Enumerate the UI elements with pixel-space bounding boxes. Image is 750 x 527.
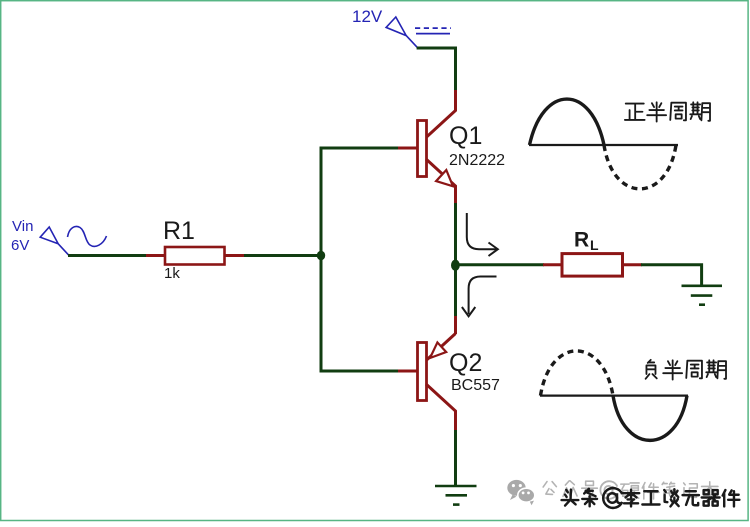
resistor RL lead right	[623, 263, 643, 266]
resistor R1 lead left	[146, 254, 165, 257]
watermark black text toutiao ligongtanyuanqijian	[562, 490, 579, 506]
waveform positive half axis	[529, 144, 678, 146]
input probe Vin	[40, 227, 68, 255]
svg-text:Vin: Vin	[12, 218, 33, 235]
waveform negative half axis	[540, 395, 688, 397]
watermark wechat icon	[507, 480, 535, 505]
transistor Q2 collector lead	[426, 384, 456, 432]
wire to Q2 base	[320, 370, 398, 373]
wire node B to RL	[456, 263, 545, 266]
svg-text:Q1: Q1	[449, 122, 482, 150]
wire Q2 collector to ground	[454, 430, 457, 486]
wire left vertical base rail	[320, 147, 323, 373]
wire Q1 emitter to node B	[454, 203, 457, 317]
node A junction dot	[317, 251, 325, 261]
svg-text:12V: 12V	[352, 7, 383, 26]
transistor Q1 emitter lead	[426, 159, 456, 204]
wire 12V corner	[417, 48, 456, 91]
current arrow upper	[467, 213, 496, 249]
DC symbol solid	[416, 33, 450, 35]
svg-text:Q2: Q2	[449, 349, 482, 377]
resistor R1 lead right	[225, 254, 246, 257]
transistor Q1 body bar	[418, 121, 427, 177]
transistor Q1 collector lead	[426, 90, 456, 138]
wire node B down	[454, 316, 457, 334]
waveform positive half solid hump	[530, 99, 605, 145]
label zhengbanzhouqi	[625, 104, 645, 120]
svg-text:BC557: BC557	[451, 377, 500, 394]
wire RL to right ground	[641, 265, 702, 286]
svg-text:R: R	[574, 229, 589, 252]
resistor RL body	[562, 254, 623, 277]
DC symbol dashed	[415, 27, 451, 29]
Q2 base lead	[398, 370, 417, 373]
transistor Q2 emitter arrow	[430, 342, 446, 358]
Q1 base lead	[398, 147, 417, 150]
svg-text:2N2222: 2N2222	[449, 152, 505, 169]
power probe 12V	[386, 17, 417, 48]
waveform negative half dashed hump	[541, 351, 614, 396]
label fubanzhouqi	[646, 360, 657, 379]
node B junction dot	[451, 260, 460, 271]
transistor Q2 body bar	[418, 343, 427, 401]
wire input to R1	[68, 254, 147, 257]
waveform positive half dashed dip	[604, 145, 676, 189]
waveform negative half solid dip	[613, 396, 687, 441]
resistor R1 body	[165, 247, 225, 265]
transistor Q2 emitter lead	[426, 334, 456, 361]
svg-text:1k: 1k	[164, 265, 180, 282]
resistor RL lead left	[543, 263, 562, 266]
watermark grey text gongzhonghao yingjianbijiben	[543, 482, 556, 495]
svg-text:L: L	[590, 237, 599, 253]
ground right	[682, 286, 723, 305]
input sine symbol	[68, 226, 107, 246]
current arrow lower	[469, 277, 497, 315]
ground bottom	[435, 486, 477, 505]
wire R1 to node A	[244, 254, 323, 257]
svg-text:6V: 6V	[11, 237, 29, 254]
wire to Q1 base	[320, 147, 398, 150]
svg-text:R1: R1	[163, 217, 195, 245]
transistor Q1 emitter arrow	[436, 170, 453, 186]
